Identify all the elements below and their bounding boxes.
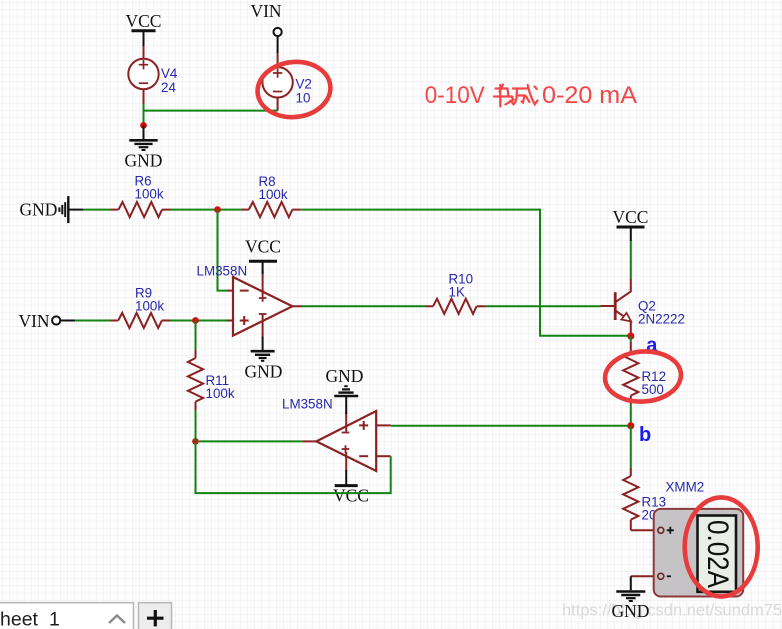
resistor R8 100k <box>241 174 301 217</box>
multimeter XMM2 <box>654 480 744 597</box>
op-amp U1 LM358N <box>197 264 303 337</box>
svg-text:https://blog.csdn.net/sundm75: https://blog.csdn.net/sundm75 <box>562 602 782 620</box>
svg-text:LM358N: LM358N <box>197 264 248 279</box>
svg-text:24: 24 <box>161 80 176 95</box>
transistor Q2 2N2222 <box>601 279 685 333</box>
wire op-amp U1 output to R10 <box>302 305 425 307</box>
voltage source V4 24V <box>128 46 178 104</box>
annotation red ellipse around V2 <box>255 58 333 120</box>
wire node b down to R13 <box>630 426 632 468</box>
svg-text:V4: V4 <box>161 66 178 81</box>
wire R12 to node b <box>630 404 632 426</box>
power symbol VCC (top of V4) <box>126 11 162 46</box>
svg-text:Sheet: Sheet <box>0 609 39 629</box>
resistor R11 100k <box>188 350 235 410</box>
wire feedback vertical to node a <box>540 209 628 336</box>
wire R9 node down to R11 <box>195 321 197 351</box>
wire node b to op-amp U2 input <box>391 425 628 427</box>
resistor R9 100k <box>111 286 171 329</box>
wire R11 to U2 output junction <box>195 410 197 441</box>
svg-text:GND: GND <box>612 601 650 621</box>
wire GND terminal to R6 <box>83 209 111 211</box>
resistor R10 1K <box>425 272 485 314</box>
wire multimeter - terminal to ground <box>631 575 657 577</box>
resistor R6 100k <box>111 174 171 218</box>
ground (op-amp U2, inverted) <box>326 366 364 414</box>
annotation red ellipse around meter display <box>685 497 758 596</box>
svg-text:100k: 100k <box>206 386 235 401</box>
wire VCC to Q2 collector <box>630 241 632 279</box>
wire VIN to R9 <box>75 320 110 322</box>
junction dot R9/R11 node <box>192 317 199 324</box>
svg-text:GND: GND <box>326 366 364 386</box>
wire op-amp U2 output to junction <box>199 440 302 442</box>
svg-text:2N2222: 2N2222 <box>638 312 685 327</box>
junction dot R11/U2 output node <box>192 438 199 445</box>
svg-text:0-20 mA: 0-20 mA <box>542 83 637 109</box>
wire node a down to R12 <box>630 336 632 342</box>
svg-text:V2: V2 <box>296 77 312 92</box>
wire R8 to feedback corner <box>301 209 540 211</box>
svg-text:100k: 100k <box>135 298 164 313</box>
junction dot under V4 <box>140 122 147 129</box>
voltage source V2 10V <box>262 53 311 111</box>
svg-text:0-10V: 0-10V <box>425 83 485 109</box>
annotation red title text 0-10V 转成 0-20 mA <box>425 83 637 109</box>
svg-text:10: 10 <box>296 90 311 105</box>
wire V4/V2 bottom rail <box>144 110 278 112</box>
svg-text:GND: GND <box>20 200 58 220</box>
svg-text:1K: 1K <box>449 284 465 299</box>
op-amp U2 LM358N (mirrored) <box>282 397 391 472</box>
svg-text:VIN: VIN <box>250 1 281 21</box>
power symbol VCC (Q2 collector) <box>613 207 649 241</box>
svg-text:VCC: VCC <box>333 486 369 506</box>
svg-text:VCC: VCC <box>613 207 649 227</box>
resistor R13 20 <box>623 468 666 530</box>
svg-text:1: 1 <box>49 609 60 629</box>
svg-text:0.02A: 0.02A <box>701 520 734 588</box>
svg-text:VCC: VCC <box>245 237 281 257</box>
junction dot R6/R8 node <box>214 206 221 213</box>
svg-text:GND: GND <box>125 151 163 171</box>
wire R13 to multimeter + terminal <box>631 529 657 531</box>
svg-text:XMM2: XMM2 <box>666 480 705 495</box>
power symbol VCC (op-amp U2, inverted) <box>333 470 369 506</box>
annotation red ellipse around R12 <box>603 349 682 404</box>
ground (multimeter) <box>616 576 645 601</box>
svg-text:100k: 100k <box>135 186 164 201</box>
junction dot node b <box>627 422 634 429</box>
resistor R12 500 <box>623 342 666 404</box>
power symbol VCC (op-amp U1) <box>245 237 281 275</box>
ground (op-amp U1) <box>245 337 283 382</box>
junction dot node a <box>627 333 634 340</box>
wire R6 to junction <box>171 209 241 211</box>
wire R9 to junction and op-amp U1 non-inverting input <box>170 320 227 322</box>
svg-text:b: b <box>639 424 651 446</box>
ground GND (under V4) <box>125 125 163 170</box>
wire V4 to ground junction <box>143 104 145 125</box>
annotation hand-drawn glyph 转 <box>494 85 514 107</box>
svg-text:500: 500 <box>642 382 664 397</box>
svg-text:VCC: VCC <box>126 11 162 31</box>
svg-text:100k: 100k <box>259 187 288 202</box>
svg-text:VIN: VIN <box>18 311 49 331</box>
svg-text:GND: GND <box>245 362 283 382</box>
wire junction down to op-amp U1 inverting input <box>218 210 228 291</box>
svg-text:LM358N: LM358N <box>282 397 333 412</box>
wire R10 to Q2 base <box>485 305 601 307</box>
terminal VIN (left input) <box>18 311 75 331</box>
wire feedback loop bottom <box>196 441 391 493</box>
terminal GND (left, sideways ground) <box>20 196 83 223</box>
terminal VIN (input connector) <box>250 1 281 53</box>
annotation hand-drawn glyph 成 <box>513 85 538 105</box>
sheet tab bar <box>0 603 172 629</box>
